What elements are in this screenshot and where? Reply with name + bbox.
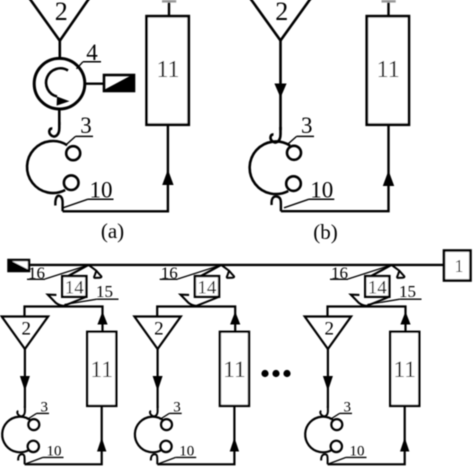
coupling loop 3 (fig a) [27, 141, 67, 193]
svg-text:2: 2 [21, 319, 31, 340]
wire 10 (fig a) [63, 125, 168, 212]
label 3 [160, 399, 182, 419]
arrowhead up into 11 [230, 438, 239, 452]
label 10 [328, 444, 366, 464]
svg-text:11: 11 [393, 357, 416, 383]
wire [327, 349, 329, 408]
antenna 2 (fig a) [29, 0, 89, 41]
svg-text:2: 2 [154, 319, 164, 340]
antenna 2 [305, 317, 351, 350]
label 3 (fig a) [66, 113, 93, 145]
receiver box 11 [87, 332, 116, 406]
antenna 2 [2, 317, 48, 350]
svg-text:11: 11 [223, 357, 246, 383]
coupler tap 15 [48, 295, 86, 306]
wire curl (fig b) [272, 196, 281, 211]
label 3 (fig b) [287, 113, 314, 145]
coupler tap 16 [66, 265, 101, 278]
coupling loop 3 [305, 417, 333, 453]
svg-text:3: 3 [80, 113, 92, 138]
wire curl [18, 454, 24, 464]
svg-text:14: 14 [65, 278, 85, 299]
feed hook [150, 406, 158, 416]
arrowhead up into coupler [230, 312, 240, 325]
terminal wire (fig a) [162, 0, 176, 16]
wire [85, 82, 104, 84]
svg-text:1: 1 [455, 256, 464, 276]
feed hook (fig b) [270, 127, 280, 143]
svg-text:15: 15 [399, 282, 416, 301]
svg-text:14: 14 [368, 278, 388, 299]
wire curl (fig a) [55, 196, 62, 212]
wire [328, 307, 406, 332]
loop terminal circle [286, 176, 301, 191]
loop terminal circle [28, 419, 39, 430]
loop terminal circle [28, 441, 39, 452]
wire [279, 41, 282, 131]
label 15 [368, 282, 422, 305]
label 16 [160, 263, 178, 282]
label 10 [25, 444, 63, 464]
wire 10 (fig b) [281, 125, 389, 212]
wire [178, 265, 222, 279]
bus terminator [8, 260, 30, 272]
svg-text:2: 2 [275, 0, 288, 26]
coupling loop 3 [2, 417, 30, 453]
label 4 [77, 40, 102, 69]
svg-text:2: 2 [324, 319, 334, 340]
circulator 4 [34, 58, 85, 109]
wire [348, 265, 392, 279]
coupling loop 3 (fig b) [250, 141, 290, 194]
modulator box 14 [195, 276, 219, 299]
feed hook [17, 406, 25, 416]
svg-text:11: 11 [156, 57, 179, 83]
svg-text:14: 14 [197, 278, 217, 299]
wire [157, 307, 235, 332]
svg-text:11: 11 [377, 57, 400, 83]
antenna 2 [134, 317, 180, 350]
loop terminal circle [331, 441, 342, 452]
wire [58, 109, 61, 125]
label 10 [158, 444, 196, 464]
wire curl [321, 454, 327, 464]
label 10 (fig a) [63, 177, 114, 207]
loop terminal circle [331, 419, 342, 430]
loop terminal circle [160, 441, 171, 452]
svg-text:15: 15 [96, 282, 113, 301]
antenna 2 (fig b) [250, 0, 311, 41]
arrowhead up into coupler [400, 312, 410, 325]
wire [58, 41, 61, 59]
coupler tap 15 [181, 295, 219, 306]
feed hook [49, 122, 59, 137]
modulator box 14 [62, 276, 86, 299]
wire [25, 307, 103, 332]
label 16 [27, 263, 45, 282]
arrowhead up into 11 (fig a) [162, 170, 173, 186]
modulator box 14 [365, 276, 389, 299]
receiver box 11 (fig a) [147, 16, 189, 125]
wire 10 [157, 406, 234, 464]
arrowhead up into coupler [97, 312, 107, 325]
arrowhead down [153, 376, 163, 391]
svg-text:2: 2 [55, 0, 68, 26]
label 16 [330, 263, 348, 282]
arrowhead down [323, 376, 333, 391]
wire 10 [25, 406, 102, 464]
svg-text:11: 11 [90, 357, 113, 383]
arrowhead down (fig b) [274, 84, 286, 98]
bus wire [30, 264, 445, 266]
wire [157, 349, 159, 408]
matched load [104, 75, 134, 91]
label 3 [27, 399, 49, 419]
label 10 (fig b) [284, 177, 334, 207]
arrowhead up into 11 [97, 438, 106, 452]
coupling loop 3 [135, 417, 163, 453]
wire 10 [328, 406, 405, 464]
arrowhead up into 11 (fig b) [383, 171, 394, 187]
terminal wire (fig b) [382, 0, 396, 16]
arrowhead down [20, 376, 30, 391]
label 15 [65, 282, 119, 305]
loop terminal circle [287, 146, 301, 160]
coupler tap 15 [351, 295, 389, 306]
feed hook [320, 406, 328, 416]
wire [24, 349, 26, 408]
receiver box 11 [390, 332, 419, 406]
arrowhead up into 11 [400, 438, 409, 452]
coupler tap 16 [199, 265, 234, 278]
wire [45, 265, 89, 279]
receiver box 11 [220, 332, 249, 406]
ellipsis [261, 370, 290, 377]
svg-text:3: 3 [301, 113, 313, 138]
loop terminal circle [66, 146, 80, 160]
svg-text:(a): (a) [101, 219, 124, 243]
label 3 [330, 399, 352, 419]
loop terminal circle [161, 419, 172, 430]
svg-text:(b): (b) [313, 220, 338, 244]
interrogator box 1 [444, 251, 471, 281]
wire curl [151, 454, 157, 464]
receiver box 11 (fig b) [367, 16, 409, 125]
loop terminal circle [64, 175, 79, 190]
coupler tap 16 [369, 265, 404, 278]
